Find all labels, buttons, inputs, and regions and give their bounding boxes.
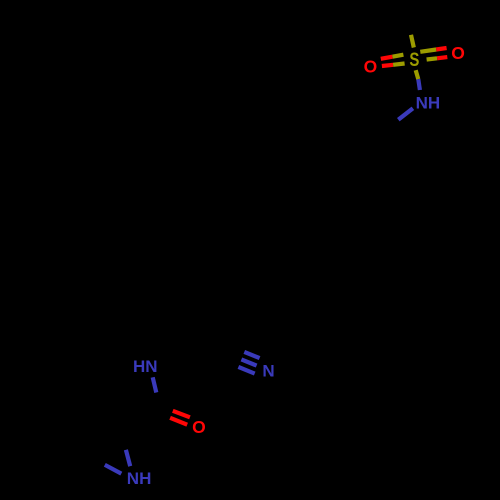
svg-text:O: O [364, 56, 378, 76]
svg-text:O: O [451, 43, 465, 63]
bond S=O left, upper line, O half [381, 57, 393, 59]
bond C#N nitrile, top line (N half) [244, 352, 259, 358]
svg-text:NH: NH [127, 469, 152, 488]
bond CH3-S (S half) [411, 35, 414, 48]
svg-text:S: S [409, 50, 419, 71]
bond C#N nitrile, bottom line (N half) [238, 367, 254, 374]
bond S-N, S half [416, 70, 419, 79]
bond ring C-NH shallow (N half) [105, 465, 122, 474]
bond S=O left, upper line, S half [393, 55, 404, 57]
bond C#N nitrile, middle line (N half) [241, 359, 256, 365]
svg-text:O: O [192, 417, 206, 437]
bond S=O left, lower line, S half [393, 64, 405, 65]
svg-text:N: N [262, 362, 274, 381]
bond S=O left, lower line, O half [382, 65, 393, 66]
bond S=O right, upper line, O half [436, 48, 446, 50]
bond C=O carbonyl, lower line (O half) [170, 418, 187, 425]
bond N-CH2 (N half) [398, 108, 413, 119]
bond S=O right, lower line, S half [427, 58, 438, 59]
bond N-C(=O) amide (N half) [153, 377, 157, 392]
svg-text:NH: NH [416, 93, 441, 112]
bond C=O carbonyl, upper line (O half) [173, 411, 190, 418]
bond ring C-NH steep (N half) [126, 450, 130, 466]
bond S=O right, lower line, O half [437, 57, 447, 58]
svg-text:HN: HN [133, 357, 158, 376]
bond S=O right, upper line, S half [420, 50, 436, 52]
bond S-N, N half [418, 79, 420, 90]
